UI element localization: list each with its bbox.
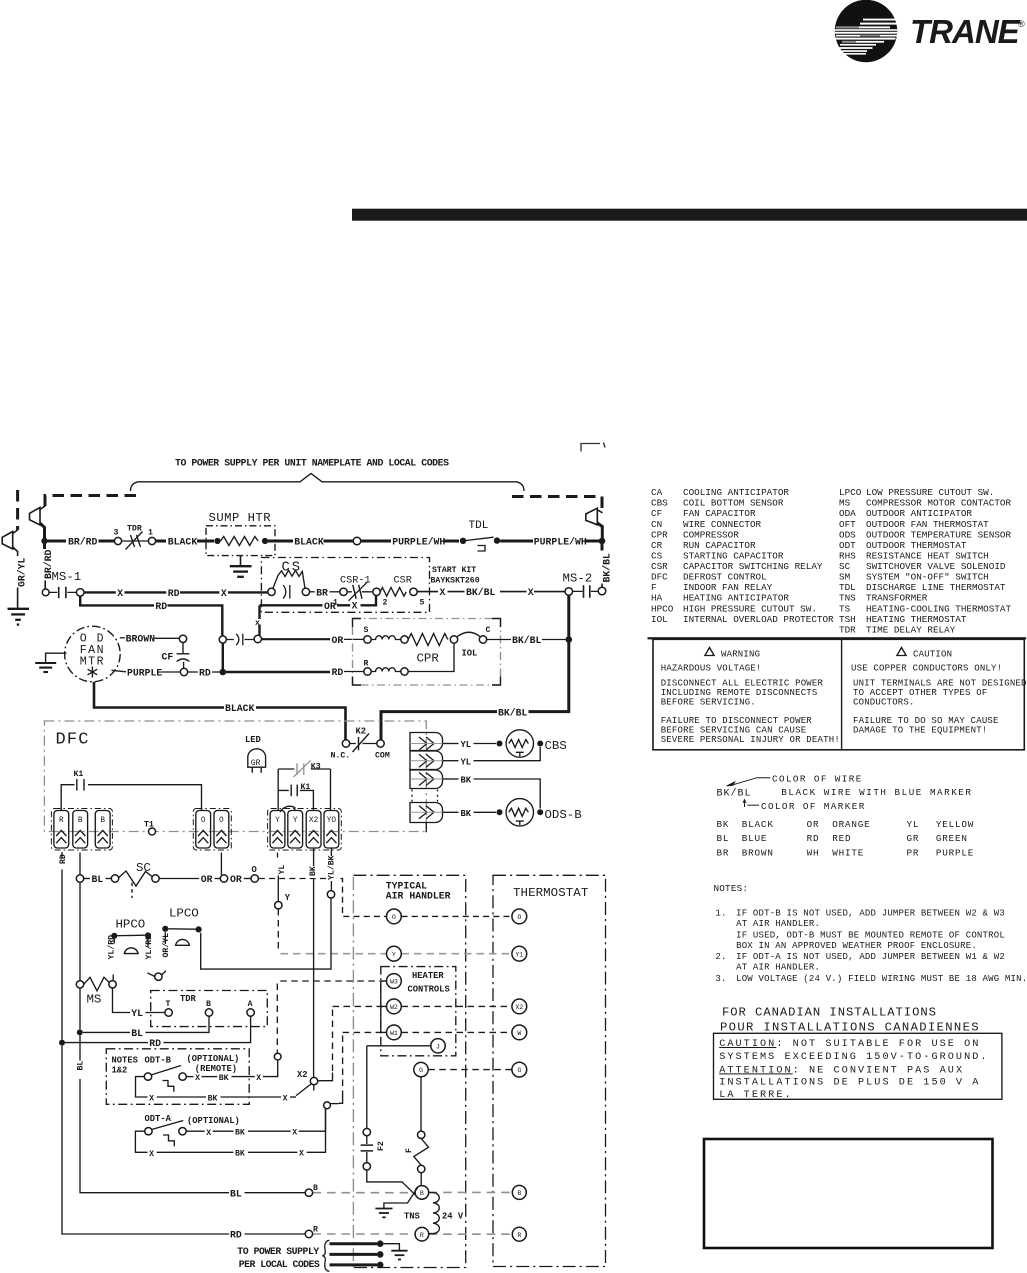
- wire RD vertical: [61, 852, 63, 858]
- svg-text:UNIT TERMINALS ARE NOT DESIGNE: UNIT TERMINALS ARE NOT DESIGNED: [853, 679, 1027, 689]
- power wire dashed ground branch: [16, 490, 19, 530]
- capacitor terminal on RD line: [219, 636, 226, 643]
- svg-text:PURPLE/WH: PURPLE/WH: [392, 537, 445, 548]
- svg-text:AT AIR HANDLER.: AT AIR HANDLER.: [736, 919, 820, 929]
- TDL discharge line thermostat: [460, 538, 466, 544]
- wire connector CN right: [586, 508, 603, 539]
- wire OR OR O: [159, 878, 199, 880]
- svg-text:Y1: Y1: [515, 951, 523, 958]
- svg-text:BLACK: BLACK: [168, 537, 198, 548]
- svg-text:CS: CS: [651, 551, 663, 562]
- svg-text:CPR: CPR: [417, 652, 440, 666]
- svg-text:DISCHARGE LINE THERMOSTAT: DISCHARGE LINE THERMOSTAT: [866, 582, 1006, 593]
- thermostat G circle: [512, 1062, 527, 1077]
- svg-text:R: R: [59, 817, 64, 825]
- svg-text:1&2: 1&2: [112, 1065, 128, 1075]
- svg-text:CONDUCTORS.: CONDUCTORS.: [853, 697, 915, 707]
- air handler W2 circle: [387, 999, 402, 1014]
- svg-text:TIME DELAY RELAY: TIME DELAY RELAY: [866, 624, 956, 635]
- wire BL to TDR B: [83, 1031, 130, 1033]
- svg-text:OUTDOOR FAN THERMOSTAT: OUTDOOR FAN THERMOSTAT: [866, 519, 989, 530]
- svg-text:RUN CAPACITOR: RUN CAPACITOR: [683, 540, 756, 551]
- svg-text:OR: OR: [332, 635, 344, 646]
- wire OR to CPR S: [262, 638, 331, 640]
- thermostat Y1 circle: [512, 946, 527, 961]
- svg-text:B: B: [313, 1184, 318, 1193]
- svg-text:WHITE: WHITE: [832, 847, 864, 858]
- svg-text:BK: BK: [219, 1074, 229, 1083]
- wire MS to TDR T: [113, 988, 131, 1013]
- svg-text:YL: YL: [461, 757, 472, 767]
- thermostat box: [493, 875, 606, 1266]
- svg-text:INDOOR FAN RELAY: INDOOR FAN RELAY: [683, 582, 773, 593]
- svg-text:CF: CF: [162, 652, 174, 663]
- wire BK fourth: [443, 811, 459, 813]
- thermostat W circle: [512, 1025, 527, 1040]
- svg-text:OUTDOOR ANTICIPATOR: OUTDOOR ANTICIPATOR: [866, 508, 972, 519]
- svg-text:NOTES: NOTES: [112, 1056, 138, 1066]
- dashed Y drop: [277, 909, 279, 952]
- svg-text:COMPRESSOR MOTOR CONTACTOR: COMPRESSOR MOTOR CONTACTOR: [866, 498, 1011, 509]
- TNS winding: [428, 1193, 439, 1234]
- svg-text:TDR: TDR: [839, 624, 856, 635]
- svg-text:ODT-A: ODT-A: [145, 1114, 172, 1124]
- svg-text:CA: CA: [651, 487, 663, 498]
- svg-text:ORANGE: ORANGE: [832, 819, 870, 830]
- svg-text:LED: LED: [245, 735, 261, 745]
- warning / caution box: [653, 639, 1027, 750]
- svg-text:MS: MS: [839, 498, 851, 509]
- legend column 2: [839, 487, 1011, 635]
- svg-text:T: T: [166, 1000, 171, 1009]
- wire RD to TDR A: [65, 1042, 148, 1044]
- svg-text:G: G: [419, 1067, 423, 1074]
- svg-text:24 V: 24 V: [442, 1212, 464, 1222]
- terminal strip Y Y X2 YO: [270, 811, 339, 849]
- ODT-A lower row: [135, 1131, 147, 1152]
- svg-text:RD: RD: [332, 667, 344, 678]
- svg-text:GR/YL: GR/YL: [17, 557, 28, 587]
- svg-text:BROWN: BROWN: [742, 847, 774, 858]
- svg-text:RD: RD: [199, 667, 211, 678]
- svg-text:YL: YL: [131, 1008, 143, 1019]
- air handler G circle: [414, 1062, 428, 1076]
- svg-text:G: G: [517, 1067, 521, 1074]
- svg-text:LA TERRE.: LA TERRE.: [719, 1090, 792, 1101]
- svg-text:R: R: [313, 1225, 318, 1234]
- jumper Y1-Y2: [280, 806, 295, 812]
- svg-text:Y: Y: [275, 817, 280, 825]
- svg-text:BR: BR: [717, 847, 730, 858]
- svg-text:CSR-1: CSR-1: [340, 576, 371, 587]
- svg-text:YELLOW: YELLOW: [936, 819, 974, 830]
- svg-text:WH: WH: [807, 847, 820, 858]
- svg-text:BL: BL: [230, 1188, 242, 1199]
- svg-text:ODS-B: ODS-B: [545, 808, 582, 822]
- svg-text:AIR HANDLER: AIR HANDLER: [386, 891, 451, 902]
- CPR R terminal: [364, 668, 371, 675]
- svg-text:TRANE: TRANE: [910, 13, 1021, 50]
- svg-text:CAUTION: CAUTION: [913, 649, 952, 659]
- svg-text:(OPTIONAL): (OPTIONAL): [187, 1116, 240, 1126]
- terminal strip O O: [196, 811, 229, 849]
- svg-text:OR/YL: OR/YL: [161, 933, 171, 958]
- svg-text:BR: BR: [316, 587, 328, 598]
- dashed Y run gray: [281, 953, 387, 955]
- wire BR/RD to TDR: [48, 540, 67, 543]
- svg-text:R: R: [517, 1232, 521, 1239]
- ODT-A junction connector: [324, 1102, 331, 1109]
- svg-text:2.: 2.: [715, 952, 726, 962]
- TNS ground: [384, 1188, 418, 1208]
- svg-text:S: S: [364, 626, 369, 635]
- svg-text:ODS: ODS: [839, 529, 856, 540]
- svg-text:X: X: [440, 587, 446, 598]
- svg-text:BLACK WIRE WITH BLUE MARKER: BLACK WIRE WITH BLUE MARKER: [781, 787, 972, 798]
- svg-text:YL: YL: [461, 740, 472, 750]
- notes: [714, 883, 1027, 984]
- dashed W2 run: [333, 1005, 512, 1007]
- fan motor ground: [46, 653, 67, 662]
- dashed W3 run + drop to ODT-B: [280, 980, 386, 982]
- svg-text:GR: GR: [251, 759, 261, 768]
- svg-text:BLUE: BLUE: [742, 833, 768, 844]
- ODT-B lower row: [136, 1077, 148, 1097]
- junction terminal: [353, 537, 361, 545]
- wire RD to junction: [188, 671, 198, 673]
- svg-text:RED: RED: [832, 833, 851, 844]
- power supply lines: [330, 1242, 378, 1245]
- svg-text:BLACK: BLACK: [742, 819, 774, 830]
- svg-text:SYSTEM "ON-OFF" SWITCH: SYSTEM "ON-OFF" SWITCH: [866, 572, 989, 583]
- svg-text:3: 3: [114, 529, 119, 538]
- svg-text:BLACK: BLACK: [225, 703, 255, 714]
- svg-text:2: 2: [383, 598, 388, 607]
- wire J to F2: [367, 1045, 431, 1047]
- dashed B row: [313, 1192, 415, 1194]
- svg-text:TSH: TSH: [839, 614, 856, 625]
- svg-text:BK/BL: BK/BL: [498, 707, 528, 718]
- svg-text:OFT: OFT: [839, 519, 856, 530]
- svg-text:OR: OR: [807, 819, 820, 830]
- svg-text:F: F: [405, 1148, 414, 1153]
- wire PURPLE: [112, 670, 127, 672]
- thermostat B circle: [512, 1185, 526, 1199]
- svg-text:NOTES:: NOTES:: [714, 883, 749, 894]
- air handler O circle: [387, 909, 402, 924]
- svg-text:W: W: [517, 1030, 521, 1037]
- svg-text:COLOR OF MARKER: COLOR OF MARKER: [761, 801, 866, 812]
- svg-text:F: F: [651, 582, 657, 593]
- svg-text:IOL: IOL: [651, 614, 668, 625]
- svg-text:1: 1: [333, 598, 338, 607]
- sump heater resistor: [214, 538, 220, 544]
- svg-text:TNS: TNS: [839, 593, 856, 604]
- wire X RD X to CS: [84, 591, 116, 593]
- W3-W2-W1 tie: [381, 981, 387, 1032]
- relay contact K3: [278, 768, 330, 770]
- defrost control DFC box: [44, 721, 426, 832]
- svg-text:OR: OR: [201, 874, 213, 885]
- svg-text:R: R: [364, 660, 369, 669]
- svg-text:B: B: [206, 1000, 211, 1009]
- svg-text:RESISTANCE HEAT SWITCH: RESISTANCE HEAT SWITCH: [866, 551, 989, 562]
- svg-text:BROWN: BROWN: [126, 634, 156, 645]
- IOL node: [450, 636, 457, 643]
- dashed W1 run: [343, 1031, 512, 1033]
- wire YL to CBS: [443, 743, 459, 745]
- svg-text:F2: F2: [377, 1141, 386, 1151]
- TDR timed contact: [122, 540, 149, 542]
- heater controls box: [381, 967, 456, 1056]
- svg-text:HIGH PRESSURE CUTOUT SW.: HIGH PRESSURE CUTOUT SW.: [683, 603, 817, 614]
- svg-text:COLOR OF WIRE: COLOR OF WIRE: [772, 774, 863, 785]
- connector block 1: [410, 733, 443, 751]
- svg-text:SEVERE PERSONAL INJURY OR DEAT: SEVERE PERSONAL INJURY OR DEATH!: [661, 735, 840, 745]
- svg-text:FAILURE TO DISCONNECT POWER: FAILURE TO DISCONNECT POWER: [661, 716, 813, 726]
- svg-text:SWITCHOVER VALVE SOLENOID: SWITCHOVER VALVE SOLENOID: [866, 561, 1006, 572]
- power wire dashed right: [512, 497, 602, 509]
- sensor ODS-B: [506, 799, 533, 826]
- svg-text:HEATER: HEATER: [412, 971, 444, 981]
- wire X vertical from OR row: [258, 605, 260, 619]
- TDR terminal B: [205, 1009, 212, 1016]
- svg-text:COOLING ANTICIPATOR: COOLING ANTICIPATOR: [683, 487, 789, 498]
- brace: [322, 1240, 329, 1271]
- junction node BR/RD: [41, 538, 47, 544]
- svg-text:RHS: RHS: [839, 551, 856, 562]
- start kit box BAYKSKT260: [261, 558, 429, 613]
- svg-text:CR: CR: [651, 540, 663, 551]
- svg-text:MS: MS: [87, 993, 102, 1007]
- power supply ground: [384, 1244, 400, 1250]
- svg-text:OR: OR: [230, 874, 242, 885]
- svg-text:1.: 1.: [715, 909, 726, 919]
- svg-text:TDR: TDR: [180, 994, 197, 1004]
- svg-text:K1: K1: [74, 770, 84, 779]
- wire BK third: [443, 778, 459, 780]
- svg-text:RD: RD: [168, 588, 180, 599]
- svg-text:TO POWER SUPPLY: TO POWER SUPPLY: [237, 1246, 319, 1257]
- svg-text:FOR CANADIAN INSTALLATIONS: FOR CANADIAN INSTALLATIONS: [722, 1005, 937, 1019]
- svg-text:ATTENTION: NE CONVIENT PAS AUX: ATTENTION: NE CONVIENT PAS AUX: [719, 1065, 964, 1076]
- svg-text:FAILURE TO DO SO MAY CAUSE: FAILURE TO DO SO MAY CAUSE: [853, 716, 999, 726]
- TDR timed contact terminal 1: [148, 537, 155, 544]
- svg-text:PURPLE: PURPLE: [127, 667, 162, 678]
- svg-text:ODT: ODT: [839, 540, 856, 551]
- svg-text:BR/RD: BR/RD: [68, 537, 98, 548]
- wire BK/BL from C: [487, 639, 511, 641]
- svg-text:®: ®: [1018, 19, 1025, 29]
- svg-text:DISCONNECT ALL ELECTRIC POWER: DISCONNECT ALL ELECTRIC POWER: [661, 679, 824, 689]
- svg-text:X: X: [206, 1129, 211, 1138]
- dashed O run to air handler: [259, 879, 387, 917]
- svg-text:THERMOSTAT: THERMOSTAT: [513, 886, 588, 900]
- svg-text:POUR INSTALLATIONS CANADIENNES: POUR INSTALLATIONS CANADIENNES: [720, 1021, 980, 1035]
- svg-text:OUTDOOR TEMPERATURE SENSOR: OUTDOOR TEMPERATURE SENSOR: [866, 529, 1011, 540]
- svg-text:YL/BK: YL/BK: [327, 855, 337, 880]
- svg-text:TDL: TDL: [469, 520, 489, 532]
- wire RD branch down: [80, 596, 154, 605]
- wire BK/BL vertical to MS-2: [601, 544, 604, 551]
- svg-text:DFC: DFC: [651, 572, 668, 583]
- connector block 3: [410, 770, 443, 789]
- svg-text:N.C.: N.C.: [331, 752, 351, 761]
- svg-text:YL/RD: YL/RD: [144, 935, 154, 960]
- svg-text:X: X: [149, 1150, 154, 1159]
- wire OR/YL: [162, 932, 166, 975]
- wire BLACK to sump heater: [156, 540, 166, 543]
- transformer TNS R circle: [415, 1227, 429, 1241]
- canadian installations: [714, 1005, 1002, 1101]
- title bar: [352, 209, 1027, 221]
- thermostat X2 circle: [512, 999, 527, 1014]
- svg-text:BK/BL: BK/BL: [466, 587, 496, 598]
- wire YL from Y terminal: [277, 853, 279, 858]
- svg-text:ODT-B: ODT-B: [145, 1056, 172, 1066]
- capacitor CR symbol: [226, 639, 253, 641]
- terminal group outlines: [51, 809, 341, 851]
- svg-text:X: X: [256, 1074, 261, 1083]
- air handler W3 circle: [387, 974, 402, 989]
- outdoor fan motor: [65, 626, 121, 682]
- svg-text:IOL: IOL: [462, 649, 478, 659]
- svg-text:B: B: [100, 817, 105, 825]
- svg-text:INTERNAL OVERLOAD PROTECTOR: INTERNAL OVERLOAD PROTECTOR: [683, 614, 834, 625]
- svg-text:COM: COM: [375, 752, 390, 761]
- svg-text:3.: 3.: [715, 974, 726, 984]
- CPR C terminal: [479, 636, 486, 643]
- svg-text:CSR: CSR: [651, 561, 668, 572]
- wire BL vertical: [79, 882, 81, 980]
- svg-text:(OPTIONAL): (OPTIONAL): [187, 1054, 240, 1064]
- svg-text:BK/BL: BK/BL: [717, 788, 752, 800]
- svg-text:R: R: [420, 1232, 424, 1239]
- svg-text:(REMOTE): (REMOTE): [195, 1064, 237, 1074]
- svg-text:W2: W2: [390, 1004, 398, 1011]
- svg-text:BK: BK: [717, 819, 730, 830]
- svg-text:SUMP HTR: SUMP HTR: [209, 511, 272, 525]
- wire BK/BL down to CPR: [529, 595, 569, 711]
- svg-text:TNS: TNS: [404, 1212, 420, 1222]
- svg-text:W1: W1: [390, 1030, 398, 1037]
- wire PURPLE/WH to TDL: [361, 540, 391, 543]
- svg-text:X: X: [292, 1129, 297, 1138]
- junction node CPR C: [566, 636, 573, 643]
- svg-text:HPCO: HPCO: [651, 603, 674, 614]
- svg-text:X: X: [195, 1074, 200, 1083]
- svg-text:GR: GR: [907, 833, 920, 844]
- air handler Y circle: [387, 946, 402, 961]
- svg-text:PURPLE/WH: PURPLE/WH: [534, 537, 587, 548]
- svg-text:CS: CS: [282, 561, 303, 576]
- svg-text:LOW VOLTAGE (24 V.) FIELD WIRI: LOW VOLTAGE (24 V.) FIELD WIRING MUST BE…: [736, 974, 1027, 984]
- svg-text:BK: BK: [309, 866, 318, 876]
- CPR S terminal: [364, 636, 371, 643]
- legend column 1: [651, 487, 834, 625]
- svg-text:LOW PRESSURE CUTOUT SW.: LOW PRESSURE CUTOUT SW.: [866, 487, 994, 498]
- svg-text:HEATING ANTICIPATOR: HEATING ANTICIPATOR: [683, 593, 789, 604]
- svg-text:BOX IN AN APPROVED WEATHER PRO: BOX IN AN APPROVED WEATHER PROOF ENCLOSU…: [736, 941, 977, 951]
- wire BLACK to K2: [94, 682, 224, 708]
- junction connector: [155, 973, 162, 980]
- callout bracket: [131, 474, 525, 492]
- svg-text:BK/BL: BK/BL: [602, 553, 613, 583]
- svg-text:DEFROST CONTROL: DEFROST CONTROL: [683, 572, 767, 583]
- svg-text:X: X: [528, 587, 534, 598]
- svg-text:X: X: [299, 1150, 304, 1159]
- svg-text:O: O: [219, 817, 224, 825]
- svg-text:1: 1: [148, 529, 153, 538]
- svg-text:BAYKSKT260: BAYKSKT260: [431, 577, 480, 586]
- svg-text:MS-1: MS-1: [52, 570, 82, 584]
- svg-text:BL: BL: [92, 874, 104, 885]
- svg-text:OUTDOOR THERMOSTAT: OUTDOOR THERMOSTAT: [866, 540, 967, 551]
- legend rule: [648, 637, 1027, 639]
- wire PURPLE/WH to MS-2 drop: [500, 540, 533, 543]
- svg-text:BK: BK: [208, 1094, 218, 1103]
- TRANE logo globe: [834, 0, 898, 62]
- thermostat R circle: [512, 1227, 526, 1241]
- svg-text:BL: BL: [717, 833, 730, 844]
- svg-text:B: B: [420, 1190, 424, 1197]
- svg-text:B: B: [78, 817, 83, 825]
- notes box: [106, 1049, 249, 1105]
- svg-text:BK: BK: [461, 776, 472, 786]
- thermostat O circle: [512, 909, 527, 924]
- svg-text:RD: RD: [807, 833, 820, 844]
- wire BLACK to CR junction: [268, 540, 293, 543]
- CPR R winding: [371, 668, 401, 672]
- svg-text:X2: X2: [297, 1070, 308, 1080]
- svg-text:O: O: [392, 914, 396, 921]
- transformer TNS B circle: [415, 1186, 429, 1200]
- svg-text:INSTALLATIONS DE PLUS DE 150 V: INSTALLATIONS DE PLUS DE 150 V A: [719, 1078, 980, 1089]
- wire connector CN line side: [30, 506, 46, 540]
- svg-text:HAZARDOUS VOLTAGE!: HAZARDOUS VOLTAGE!: [661, 664, 762, 674]
- svg-text:RD: RD: [149, 1038, 161, 1049]
- svg-text:DFC: DFC: [56, 731, 90, 750]
- svg-text:ODA: ODA: [839, 508, 856, 519]
- svg-text:LPCO: LPCO: [169, 906, 199, 920]
- svg-text:YL: YL: [278, 865, 287, 875]
- svg-text:SYSTEMS EXCEEDING 150V-TO-GROU: SYSTEMS EXCEEDING 150V-TO-GROUND.: [719, 1052, 988, 1063]
- svg-text:HEATING-COOLING THERMOSTAT: HEATING-COOLING THERMOSTAT: [866, 603, 1011, 614]
- svg-text:X: X: [149, 1095, 154, 1104]
- svg-text:BL: BL: [77, 1061, 86, 1071]
- wire BK from X2 terminal: [313, 848, 315, 1077]
- svg-text:TDL: TDL: [839, 582, 856, 593]
- svg-text:USE COPPER CONDUCTORS ONLY!: USE COPPER CONDUCTORS ONLY!: [851, 664, 1002, 674]
- svg-text:RD: RD: [155, 601, 167, 612]
- wire YL/RD right: [148, 939, 155, 977]
- wire O2 terminal drop: [220, 853, 222, 875]
- svg-text:LPCO: LPCO: [839, 487, 862, 498]
- wire BROWN: [120, 637, 125, 639]
- svg-text:BEFORE SERVICING.: BEFORE SERVICING.: [661, 697, 756, 707]
- terminal X2: [296, 1084, 311, 1096]
- connector chevrons: [419, 737, 434, 819]
- connector block 4: [410, 803, 443, 823]
- svg-text:BK/BL: BK/BL: [512, 635, 542, 646]
- svg-text:SC: SC: [839, 561, 851, 572]
- svg-text:CPR: CPR: [651, 529, 668, 540]
- wire BL to SC: [79, 853, 81, 875]
- svg-text:START KIT: START KIT: [432, 566, 476, 575]
- GR/YL wire: [17, 588, 19, 609]
- svg-text:BK: BK: [235, 1150, 245, 1159]
- svg-text:WIRE CONNECTOR: WIRE CONNECTOR: [683, 519, 762, 530]
